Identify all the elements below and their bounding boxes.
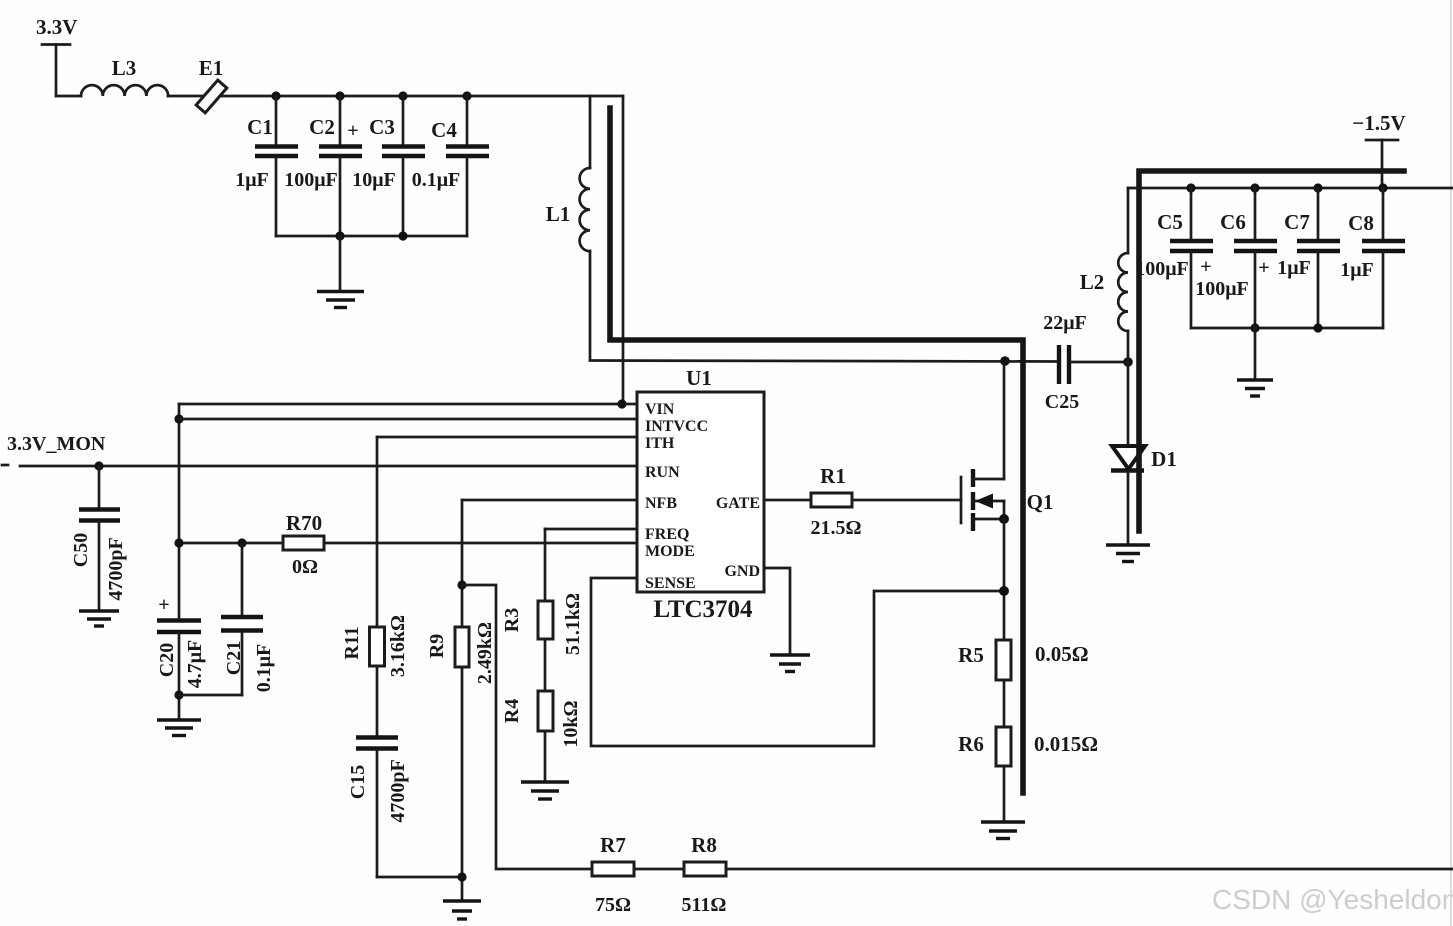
- node NFB junction: [457, 580, 466, 589]
- wire FREQ line: [545, 528, 637, 531]
- svg-text:R3: R3: [501, 608, 523, 632]
- node MODE/C20 junction: [174, 538, 183, 547]
- capacitor C21 0.1uF: [179, 543, 275, 695]
- capacitor C25 22uF: [1043, 312, 1128, 413]
- fuse E1: [196, 56, 227, 113]
- svg-text:0.015Ω: 0.015Ω: [1034, 732, 1098, 756]
- svg-text:L3: L3: [112, 56, 137, 80]
- svg-text:R1: R1: [820, 464, 846, 488]
- wire R11 to C15: [376, 666, 379, 735]
- wire R7 to R8: [634, 868, 684, 871]
- svg-text:D1: D1: [1151, 447, 1177, 471]
- svg-text:CSDN @Yesheldon: CSDN @Yesheldon: [1212, 884, 1453, 915]
- svg-text:4700pF: 4700pF: [105, 537, 127, 600]
- svg-text:C50: C50: [70, 533, 92, 567]
- svg-text:C25: C25: [1045, 391, 1079, 413]
- svg-text:L1: L1: [546, 202, 571, 226]
- node bottom rail junction C6: [1250, 323, 1259, 332]
- svg-text:511Ω: 511Ω: [682, 894, 727, 916]
- wire R3 to R4: [544, 639, 547, 691]
- wire VIN riser from input rail: [622, 96, 625, 404]
- svg-text:C3: C3: [369, 115, 395, 139]
- svg-text:L2: L2: [1080, 270, 1105, 294]
- svg-text:R7: R7: [600, 833, 626, 857]
- svg-text:SENSE: SENSE: [645, 575, 696, 592]
- capacitor C15 4700pF: [347, 738, 462, 878]
- svg-text:1μF: 1μF: [1277, 257, 1311, 279]
- ground R4: [521, 782, 569, 799]
- svg-text:ITH: ITH: [645, 435, 675, 452]
- capacitor C20 4.7uF: [156, 594, 206, 719]
- node L2/D1 junction: [1123, 357, 1133, 367]
- capacitor C2 100uF: [284, 96, 362, 236]
- wire GND pin: [764, 568, 790, 655]
- svg-text:RUN: RUN: [645, 464, 680, 481]
- svg-text:3.3V: 3.3V: [36, 15, 77, 39]
- wire R6 to ground: [1003, 766, 1006, 822]
- svg-text:INTVCC: INTVCC: [645, 418, 708, 435]
- node INTVCC junction: [174, 414, 183, 423]
- svg-text:GND: GND: [724, 563, 760, 580]
- thick bus input: [610, 108, 1023, 793]
- ground U1 GND: [770, 655, 810, 672]
- capacitor C8 1uF: [1340, 188, 1405, 328]
- svg-text:10kΩ: 10kΩ: [560, 700, 582, 747]
- node input rail junction C3: [398, 91, 407, 100]
- svg-text:4.7μF: 4.7μF: [184, 640, 206, 689]
- svg-text:75Ω: 75Ω: [595, 894, 631, 916]
- svg-text:R9: R9: [426, 634, 448, 658]
- power net -1.5V: [1352, 111, 1405, 188]
- svg-text:R4: R4: [501, 699, 523, 723]
- capacitor C50 4700pF: [70, 466, 127, 610]
- svg-text:0Ω: 0Ω: [292, 556, 318, 578]
- svg-text:22μF: 22μF: [1043, 312, 1087, 334]
- node switch node junction: [1000, 356, 1010, 366]
- svg-text:C7: C7: [1284, 210, 1310, 234]
- wire NFB line: [462, 499, 637, 502]
- power net 3.3V: [36, 15, 77, 96]
- thick bus output: [1139, 171, 1404, 531]
- svg-text:U1: U1: [686, 366, 712, 390]
- svg-text:FREQ: FREQ: [645, 526, 689, 543]
- wire L3 to input rail: [168, 95, 623, 98]
- ground C15/R9: [443, 901, 481, 919]
- svg-text:2.49kΩ: 2.49kΩ: [474, 622, 496, 684]
- ground C20/C21: [157, 720, 201, 736]
- inductor L2: [1080, 188, 1128, 362]
- svg-text:C21: C21: [223, 641, 245, 675]
- node C21 junction: [237, 538, 246, 547]
- svg-text:R8: R8: [691, 833, 717, 857]
- wire SENSE route: [591, 578, 1004, 746]
- op-amp U1 LTC3704: [637, 366, 764, 623]
- wire GATE to R1: [764, 499, 811, 502]
- svg-text:51.1kΩ: 51.1kΩ: [562, 593, 584, 655]
- svg-text:0.1μF: 0.1μF: [253, 644, 275, 693]
- wire R1 to Q1 gate: [852, 499, 961, 502]
- wire output caps bottom rail: [1191, 327, 1383, 330]
- svg-text:C8: C8: [1348, 211, 1374, 235]
- wire NFB to divider: [462, 585, 592, 869]
- wire INTVCC line: [179, 418, 637, 421]
- capacitor C7 1uF: [1258, 188, 1340, 328]
- svg-text:C1: C1: [247, 115, 273, 139]
- ground output caps: [1237, 328, 1273, 396]
- inductor L3: [81, 56, 168, 96]
- resistor R1 21.5ohm: [810, 464, 861, 539]
- node Q1 source junction: [999, 514, 1009, 524]
- svg-text:1μF: 1μF: [235, 169, 269, 191]
- diode D1: [1111, 362, 1177, 545]
- svg-text:+: +: [158, 594, 169, 616]
- resistor R4 10k: [501, 691, 582, 748]
- node input rail junction C4: [462, 91, 471, 100]
- node bottom rail junction C2: [335, 231, 344, 240]
- wire ITH line: [377, 436, 637, 439]
- svg-text:+: +: [1258, 257, 1269, 279]
- svg-text:3.16kΩ: 3.16kΩ: [387, 615, 409, 677]
- transistor Q1 NMOS: [961, 361, 1053, 531]
- resistor R8 511ohm: [682, 833, 727, 916]
- node output rail junction C5: [1186, 183, 1195, 192]
- resistor R3 51.1k: [501, 593, 584, 655]
- resistor R6 0.015ohm: [958, 727, 1098, 766]
- svg-text:C4: C4: [431, 118, 457, 142]
- wire VIN line: [179, 403, 637, 406]
- net 3.3V_MON RUN line: [2, 433, 637, 466]
- svg-text:C5: C5: [1157, 210, 1183, 234]
- node bottom rail junction C3: [398, 231, 407, 240]
- node C50 junction: [94, 461, 103, 470]
- svg-text:MODE: MODE: [645, 543, 695, 560]
- ground input caps: [317, 236, 364, 308]
- node bottom rail junction C7: [1313, 323, 1322, 332]
- ground D1: [1106, 545, 1150, 562]
- wire ITH compensation branch: [376, 437, 379, 627]
- svg-text:C20: C20: [156, 643, 178, 677]
- svg-text:R5: R5: [958, 643, 984, 667]
- svg-text:+: +: [1200, 256, 1211, 278]
- svg-text:3.3V_MON: 3.3V_MON: [7, 433, 106, 455]
- svg-text:100μF: 100μF: [284, 169, 338, 191]
- capacitor C1 1uF: [235, 96, 298, 236]
- capacitor C6 100uF: [1195, 188, 1277, 328]
- svg-text:0.1μF: 0.1μF: [412, 169, 461, 191]
- svg-text:100μF: 100μF: [1195, 278, 1249, 300]
- node output rail junction C6: [1250, 183, 1259, 192]
- wire output rail: [1128, 187, 1453, 190]
- inductor L1: [546, 96, 590, 360]
- svg-text:GATE: GATE: [716, 495, 760, 512]
- svg-text:R11: R11: [341, 626, 363, 659]
- svg-text:C2: C2: [309, 115, 335, 139]
- node output rail junction C7: [1313, 183, 1322, 192]
- resistor R7 75ohm: [592, 833, 634, 916]
- ground C50: [79, 611, 119, 626]
- wire R4 to ground: [544, 731, 547, 782]
- svg-text:Q1: Q1: [1027, 490, 1054, 514]
- resistor R5 0.05ohm: [958, 640, 1088, 680]
- svg-text:−1.5V: −1.5V: [1352, 111, 1405, 135]
- svg-text:4700pF: 4700pF: [387, 759, 409, 822]
- svg-text:+: +: [347, 120, 358, 142]
- svg-text:E1: E1: [199, 56, 224, 80]
- node SENSE tap junction: [999, 586, 1009, 596]
- wire Q1 source down: [1003, 519, 1006, 640]
- svg-text:1μF: 1μF: [1340, 259, 1374, 281]
- svg-text:10μF: 10μF: [352, 169, 396, 191]
- svg-text:LTC3704: LTC3704: [653, 596, 753, 623]
- svg-text:NFB: NFB: [645, 495, 677, 512]
- svg-text:C15: C15: [347, 765, 369, 799]
- node input rail junction C1: [271, 91, 280, 100]
- wire R9 to ground: [461, 667, 464, 901]
- wire input caps bottom rail: [276, 235, 467, 238]
- svg-text:0.05Ω: 0.05Ω: [1035, 642, 1089, 666]
- node VIN junction: [617, 399, 626, 408]
- svg-text:VIN: VIN: [645, 401, 675, 418]
- wire switch node L1 to C25: [590, 361, 1057, 362]
- resistor R11 3.16k: [341, 615, 409, 677]
- node input rail junction C2: [335, 91, 344, 100]
- resistor R9 2.49k: [426, 622, 496, 684]
- wire MODE line: [179, 542, 283, 545]
- scan edge artifact: [1450, 0, 1452, 926]
- capacitor C4 0.1uF: [412, 96, 489, 236]
- node C15/R9 ground junction: [457, 872, 466, 881]
- svg-text:R70: R70: [286, 511, 322, 535]
- wire R8 to right edge: [726, 868, 1453, 871]
- capacitor C3 10uF: [352, 96, 425, 236]
- svg-text:100μF: 100μF: [1135, 258, 1189, 280]
- wire 3.3V to L3: [56, 95, 81, 98]
- capacitor C5 100uF: [1135, 188, 1213, 328]
- svg-text:R6: R6: [958, 732, 984, 756]
- node output rail junction C8: [1378, 183, 1387, 192]
- wire left riser x179: [178, 404, 181, 617]
- wire R5 to R6: [1003, 680, 1006, 727]
- ground R6: [981, 822, 1025, 839]
- node C20/C21 ground junction: [174, 690, 183, 699]
- svg-text:C6: C6: [1220, 210, 1246, 234]
- svg-text:21.5Ω: 21.5Ω: [810, 517, 861, 539]
- resistor R70 0ohm: [283, 511, 324, 578]
